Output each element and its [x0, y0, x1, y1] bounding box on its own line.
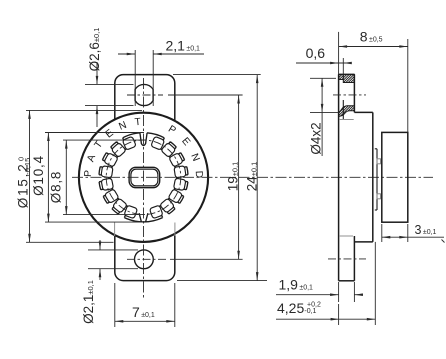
svg-text:Ø15,2 0-0,15: Ø15,2 0-0,15 [16, 157, 32, 208]
svg-text:0,6: 0,6 [306, 45, 326, 61]
svg-text:T: T [134, 117, 141, 129]
svg-text:Ø4x2: Ø4x2 [308, 122, 323, 154]
svg-text:P: P [83, 170, 94, 178]
svg-text:Ø8,8: Ø8,8 [49, 171, 64, 203]
svg-text:Ø10,4: Ø10,4 [31, 155, 46, 196]
svg-text:4,25 +0,2-0,1: 4,25 +0,2-0,1 [277, 300, 321, 316]
